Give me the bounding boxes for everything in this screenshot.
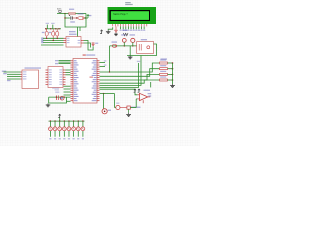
wire [84,17,88,19]
resistor R3 [160,65,166,66]
crystal X2 [56,29,58,31]
net label RXD [2,71,7,72]
wire [66,69,71,71]
diode D3 [121,34,126,35]
wire [100,62,106,64]
LED D10 [78,120,79,121]
wire [45,28,61,30]
net label buzzer [131,107,141,108]
LCD display LCD1 LM016L [125,2,131,3]
wire [130,107,136,109]
LCD pins [112,24,114,26]
wire [79,27,81,31]
wire [43,37,64,39]
wire [59,60,71,62]
preset buttons [123,30,128,31]
contrast pot RV1 [115,26,117,30]
junction [76,17,77,18]
LED D9 [73,120,74,121]
junction [124,45,125,46]
net label [148,93,152,94]
wire [65,14,86,28]
wire [84,41,94,51]
IC U3 AT89C51 MCU [83,54,86,55]
LED D5 [54,120,55,121]
svg-text:Nazim Proje ?: Nazim Proje ? [113,13,128,16]
transistor Q2 [130,34,136,35]
wire [120,26,122,29]
wire [77,27,79,37]
wire [4,71,21,73]
junction [109,71,110,72]
wire [100,93,115,95]
IC U4 RTC [69,31,76,32]
motor/lamp M1 [102,109,107,114]
net label [137,61,140,62]
LED D7 [64,120,65,121]
crystal X1 [60,96,64,100]
wire [72,17,77,19]
wire [108,27,113,30]
wire to relay driver [100,56,142,86]
ground [172,84,174,86]
diode D1 [78,13,84,14]
LED D4 [50,120,51,121]
junction [64,17,65,18]
junction [46,38,47,39]
capacitor C2 [49,32,52,33]
battery B1 [92,43,95,45]
wire [57,13,69,15]
net labels [41,37,43,43]
wire [103,94,105,109]
net labels LCD data bus [120,30,122,31]
capacitor C3 [56,95,58,100]
junction [45,28,46,29]
wire [150,82,152,87]
diode D2 [112,41,118,42]
net labels [46,23,49,24]
wire [46,25,48,29]
wire [129,46,131,56]
capacitor C7 (electrolytic) [70,16,72,19]
relay RL1 [141,39,147,40]
wire [65,17,70,19]
LED D11 [82,120,83,121]
junction [64,13,65,14]
ground [128,109,130,113]
wire P0 bus to resistors [100,63,160,72]
wire [64,85,71,87]
IC U2 opto/level shifter [25,67,42,68]
wire [127,44,157,56]
IC U5 driver [48,67,63,88]
wire [120,107,127,109]
sensor bead [116,103,119,104]
wire [43,40,64,42]
resistor R4 [160,71,166,72]
wire [172,63,174,84]
wire [43,42,64,44]
LED D6 [59,120,60,121]
capacitor C1 [42,32,45,33]
junction [56,96,57,97]
resistor R5 [160,76,166,77]
crystal X1 circuit [55,92,59,93]
net labels [55,60,58,61]
ground [129,56,131,58]
power flag 5V LED rail [58,115,59,118]
power flag VDD [100,31,102,34]
fuse F1 [69,9,74,10]
wire to comparator + [100,89,138,95]
wire [41,44,64,46]
ground [47,103,49,105]
op-amp U6 [144,90,151,91]
junction [103,93,104,94]
LED D8 [68,120,69,121]
wire [76,13,87,15]
wire [100,63,139,87]
net labels [104,60,107,61]
net label [161,58,168,59]
net label TXD [7,80,11,81]
transistor Q1 [127,106,130,109]
power flags [134,90,135,93]
wire LED rail [49,120,85,122]
wire [109,46,111,72]
ground [107,30,109,32]
wire [114,94,116,108]
power flag 5V [87,15,89,18]
wire [110,45,137,47]
resistor R2 [160,59,166,60]
net label U5 [52,88,59,89]
